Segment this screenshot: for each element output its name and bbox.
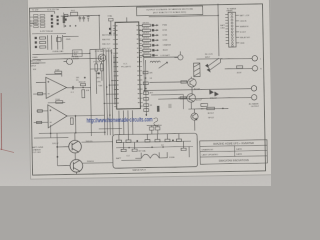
wire	[32, 53, 103, 63]
terminal N1	[252, 65, 262, 71]
crystal X1	[107, 15, 115, 36]
buzzer box	[72, 50, 82, 57]
resistor R32	[201, 104, 208, 111]
label Q6	[208, 113, 215, 120]
resistors sensing divider	[95, 49, 104, 94]
op-amp U3A	[46, 77, 67, 98]
terminal L2	[251, 86, 256, 91]
wire	[48, 102, 76, 133]
node mid	[84, 77, 86, 79]
wire	[63, 35, 78, 37]
capacitor C2	[78, 16, 81, 22]
wire	[126, 17, 128, 22]
wire	[143, 56, 177, 59]
op-amp U3B	[48, 104, 67, 127]
wire	[158, 97, 251, 99]
resistor R11 input	[38, 93, 43, 95]
capacitor C1	[63, 12, 66, 27]
wire	[75, 132, 113, 174]
transistor Q7	[98, 54, 106, 62]
wire	[147, 125, 162, 134]
wire	[148, 4, 218, 58]
red scan mark bottom	[0, 149, 14, 153]
IC left pin stubs	[90, 62, 116, 103]
wire	[144, 53, 252, 90]
resistor R14	[37, 110, 42, 112]
wire	[50, 125, 57, 166]
diode D12	[78, 82, 86, 86]
main IC U1	[113, 22, 143, 109]
regulator U4 7812	[70, 10, 77, 15]
relay contacts	[205, 58, 220, 72]
wire Q6	[188, 108, 228, 130]
terminal N2	[251, 95, 256, 100]
pen squiggle	[153, 118, 159, 126]
label mains in	[30, 20, 37, 28]
resistor R13 feedback	[55, 99, 63, 103]
LED indicator	[174, 55, 183, 60]
inductor L1	[150, 61, 168, 69]
diode D11	[65, 18, 67, 20]
node dots battery	[50, 132, 59, 158]
wire	[149, 77, 192, 110]
wire	[33, 82, 91, 94]
transistor Q5	[63, 58, 80, 64]
IC pin labels lower	[97, 72, 103, 88]
charger box extra parts	[116, 141, 193, 159]
label RL1	[205, 54, 214, 59]
node dots	[65, 25, 77, 27]
label Q3	[52, 141, 93, 145]
node	[222, 108, 224, 110]
resistor diode rows R20-R26	[139, 22, 172, 58]
scanned page	[27, 0, 272, 179]
resistor R10 feedback	[55, 69, 62, 73]
wire mid	[151, 94, 183, 109]
transistor Q4	[70, 159, 83, 172]
label overload	[32, 50, 78, 60]
red scan mark left	[0, 93, 2, 150]
resistor R15	[37, 121, 42, 123]
wire	[219, 59, 221, 62]
wire	[33, 110, 104, 123]
resistor chain right of IC	[143, 60, 154, 116]
wire	[119, 110, 133, 134]
resistors lower row	[40, 35, 63, 50]
bridge diodes D1-D4	[51, 15, 54, 28]
junction dots	[73, 13, 221, 134]
resistor R5	[64, 14, 68, 16]
charger box	[112, 133, 197, 168]
connector U2	[225, 7, 251, 47]
relay RL1 coil	[194, 63, 201, 77]
transistor Q3	[69, 140, 82, 153]
resistor R33	[237, 66, 243, 75]
transistor Q2	[187, 94, 196, 103]
diode D22	[157, 106, 160, 112]
label AC out	[249, 102, 260, 108]
resistor R16	[70, 115, 76, 124]
bus junction dots	[103, 62, 116, 105]
wire	[61, 15, 100, 49]
diodes D5-D7	[56, 16, 58, 25]
terminal L1	[252, 55, 262, 61]
smudge	[168, 104, 171, 108]
resistor R12 output	[82, 87, 90, 98]
lower diodes D8-D10	[35, 37, 38, 48]
wire	[220, 58, 252, 69]
transformer T1 windings	[30, 14, 66, 34]
label conn left	[220, 24, 226, 30]
label batt section	[32, 146, 44, 154]
resistor R30	[181, 81, 187, 84]
capacitor C4	[87, 15, 90, 22]
wire	[90, 49, 105, 136]
label mid	[76, 77, 80, 81]
wire bus	[103, 49, 115, 135]
wire	[196, 58, 222, 60]
wire	[30, 11, 55, 14]
resistor R31	[180, 97, 186, 100]
diodes D20 D21	[210, 90, 219, 97]
label batt sense	[30, 59, 43, 71]
title box	[137, 6, 203, 16]
IC left pin labels	[102, 34, 111, 50]
capacitors above box	[149, 127, 160, 130]
wire	[179, 51, 181, 54]
transistor Q1	[188, 78, 197, 87]
wire	[46, 74, 62, 77]
capacitor C6	[71, 86, 75, 94]
wire	[57, 147, 70, 166]
wire	[34, 128, 122, 138]
transistor Q6	[191, 113, 198, 120]
title block table	[200, 140, 268, 165]
resistor R34	[207, 107, 215, 110]
capacitor C3	[82, 16, 85, 22]
